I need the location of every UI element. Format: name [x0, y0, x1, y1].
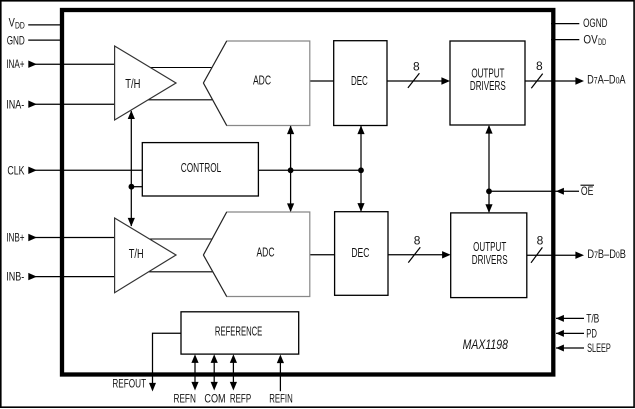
arrow REFIN up — [277, 355, 284, 364]
svg-text:CLK: CLK — [7, 163, 24, 177]
junction OE — [486, 188, 492, 194]
svg-text:OE: OE — [581, 184, 594, 198]
wire DEC vertical — [360, 126, 362, 211]
arrow SLEEP — [556, 345, 564, 352]
DEC A — [334, 41, 387, 126]
arrow D7B — [575, 252, 584, 259]
arrow COM down — [211, 382, 218, 391]
arrow PD — [556, 330, 564, 337]
svg-text:OV: OV — [583, 32, 597, 46]
wire CLK — [34, 169, 142, 171]
chip boundary — [62, 10, 553, 375]
arrow into ADC A — [287, 126, 294, 135]
arrow T/B — [556, 315, 564, 322]
wire REFOUT — [153, 333, 182, 383]
arrow OE — [556, 188, 564, 195]
svg-text:T/H: T/H — [129, 246, 144, 261]
bus slash A1 — [408, 73, 420, 88]
arrow DEC A out — [441, 77, 450, 84]
bus slash B1 — [408, 247, 420, 262]
svg-text:REFERENCE: REFERENCE — [215, 324, 263, 339]
svg-text:REFN: REFN — [174, 391, 196, 405]
wire ADC B to DEC B — [310, 254, 335, 256]
wire T/H B to ADC B upper — [149, 238, 212, 240]
svg-text:COM: COM — [204, 391, 225, 405]
svg-text:REFOUT: REFOUT — [112, 376, 146, 390]
wire DEC A to OUTPUT DRIVERS A — [387, 80, 448, 82]
svg-text:8: 8 — [537, 234, 544, 248]
wire stub to CONTROL — [131, 186, 142, 188]
CONTROL — [142, 143, 258, 196]
OUTPUT DRIVERS A — [450, 41, 525, 125]
wire OUTPUT DRIVERS vertical — [488, 126, 490, 212]
wire ADC vertical — [290, 126, 292, 211]
arrow REFOUT down — [149, 383, 156, 392]
svg-text:GND: GND — [7, 34, 25, 48]
wire REFIN — [279, 361, 281, 391]
arrow into DEC B — [357, 203, 364, 212]
arrow into OUTPUT DRIVERS A — [485, 125, 492, 134]
wire PD pin — [556, 332, 584, 334]
arrow CLK — [28, 167, 37, 174]
wire ADC A to DEC A — [310, 80, 334, 82]
bus slash A2 — [531, 74, 542, 89]
svg-text:8: 8 — [536, 59, 543, 73]
svg-text:DD: DD — [598, 37, 606, 47]
wire OVDD pin — [551, 39, 579, 41]
arrow INB+ — [28, 234, 37, 241]
svg-text:V: V — [9, 16, 15, 30]
arrow D7A — [575, 77, 584, 84]
svg-text:PD: PD — [586, 327, 597, 341]
svg-text:8: 8 — [414, 233, 421, 247]
arrow COM up — [211, 354, 218, 363]
arrow REFN down — [191, 382, 198, 391]
wire T/H B to ADC B lower — [149, 271, 213, 273]
arrow clock into T/H B — [128, 218, 135, 227]
arrow into DEC A — [357, 126, 364, 135]
arrow INB- — [28, 273, 37, 280]
arrow REFP down — [230, 382, 237, 391]
wire clock vertical — [130, 111, 132, 226]
svg-text:DEC: DEC — [351, 73, 368, 88]
wire DEC B to OUTPUT DRIVERS B — [388, 254, 449, 256]
wire T/H A to ADC A upper — [150, 67, 212, 69]
arrow clock into T/H A — [128, 110, 135, 119]
arrow REFP up — [230, 354, 237, 363]
DEC B — [335, 212, 388, 296]
wire VDD pin — [28, 24, 62, 26]
T/H amplifier A — [115, 46, 176, 120]
svg-text:8: 8 — [413, 60, 420, 74]
wire OUTPUT DRIVERS B to D7B — [527, 254, 576, 256]
OUTPUT DRIVERS B — [451, 213, 527, 298]
wire OUTPUT DRIVERS A to D7A — [525, 80, 576, 82]
svg-text:DD: DD — [15, 20, 25, 30]
ADC B — [203, 212, 309, 297]
svg-text:OGND: OGND — [583, 16, 608, 30]
T/H amplifier B — [115, 218, 176, 293]
wire INB- — [34, 276, 115, 278]
arrow DEC B out — [442, 251, 451, 258]
wire OGND pin — [551, 23, 579, 25]
wire INA+ — [34, 63, 115, 65]
bus slash B2 — [531, 247, 542, 262]
svg-text:D7B–D0B: D7B–D0B — [587, 247, 626, 261]
ADC A — [203, 41, 309, 126]
wire INA- — [34, 103, 115, 105]
arrow INA- — [28, 101, 37, 108]
wire SLEEP pin — [556, 347, 584, 349]
junction ADC bus — [288, 167, 294, 173]
svg-text:INB+: INB+ — [6, 231, 24, 245]
junction DEC bus — [358, 167, 364, 173]
wire REFP — [232, 360, 234, 383]
arrow INA+ — [28, 61, 37, 68]
svg-text:ADC: ADC — [256, 245, 274, 260]
wire REFN — [194, 360, 196, 383]
svg-text:T/B: T/B — [586, 312, 599, 326]
svg-text:REFIN: REFIN — [269, 391, 292, 405]
svg-text:INA+: INA+ — [6, 57, 24, 71]
wire OE — [489, 190, 579, 192]
svg-text:MAX1198: MAX1198 — [463, 336, 508, 352]
svg-text:CONTROL: CONTROL — [181, 160, 222, 175]
svg-text:REFP: REFP — [230, 391, 251, 405]
svg-text:ADC: ADC — [253, 73, 271, 88]
svg-text:DEC: DEC — [351, 245, 369, 260]
wire GND pin — [28, 39, 62, 41]
arrow into ADC B — [287, 203, 294, 212]
svg-text:INA-: INA- — [6, 97, 24, 111]
junction clock-control — [129, 184, 135, 190]
svg-text:DRIVERS: DRIVERS — [470, 78, 506, 93]
REFERENCE — [181, 312, 299, 354]
wire control bus — [258, 169, 361, 171]
arrow into OUTPUT DRIVERS B — [485, 204, 492, 213]
svg-text:DRIVERS: DRIVERS — [472, 252, 508, 267]
svg-text:D7A–D0A: D7A–D0A — [587, 73, 626, 87]
wire COM — [213, 360, 215, 383]
svg-text:T/H: T/H — [125, 76, 140, 91]
svg-text:SLEEP: SLEEP — [587, 341, 611, 355]
wire T/B pin — [556, 317, 584, 319]
wire INB+ — [34, 237, 115, 239]
svg-text:INB-: INB- — [6, 270, 24, 284]
wire T/H A to ADC A lower — [148, 99, 213, 101]
arrow REFN up — [191, 354, 198, 363]
